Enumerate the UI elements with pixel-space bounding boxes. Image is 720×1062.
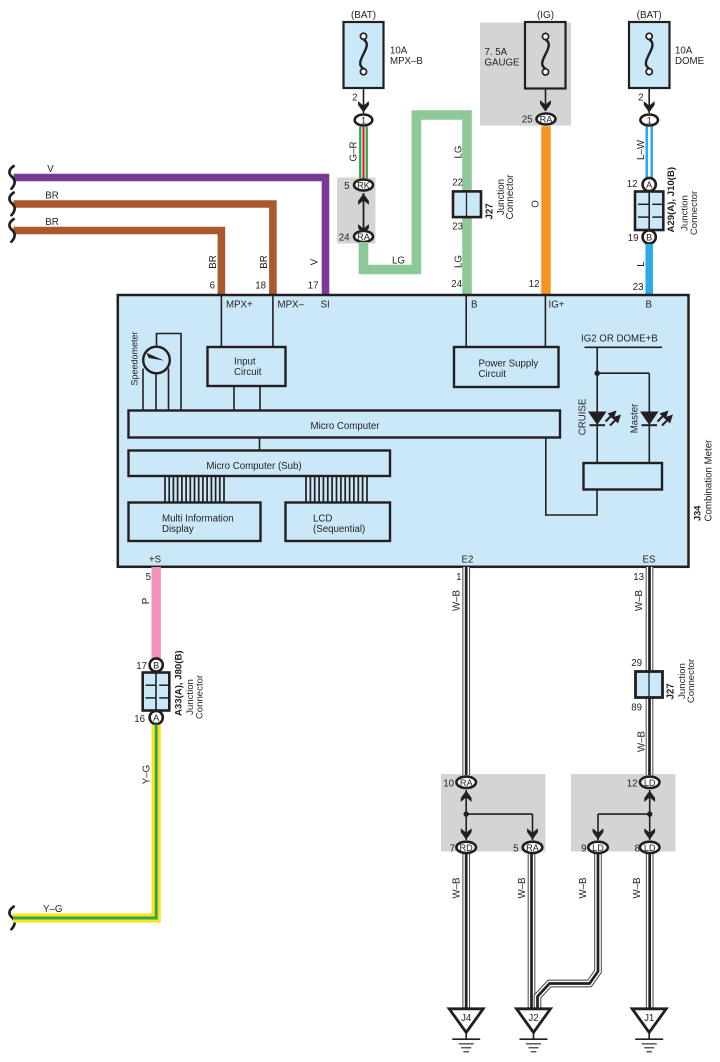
svg-text:Connector: Connector <box>505 174 516 219</box>
svg-text:J27: J27 <box>485 203 496 219</box>
svg-text:(BAT): (BAT) <box>637 10 662 21</box>
svg-text:RA: RA <box>526 843 540 853</box>
svg-text:Connector: Connector <box>195 674 206 719</box>
svg-text:W–B: W–B <box>452 878 463 899</box>
svg-text:13: 13 <box>633 572 644 583</box>
svg-text:23: 23 <box>452 222 463 233</box>
svg-text:A: A <box>153 713 160 723</box>
svg-text:1: 1 <box>456 572 461 583</box>
svg-text:10: 10 <box>443 779 454 790</box>
svg-text:9: 9 <box>581 844 586 855</box>
svg-text:Display: Display <box>162 524 194 535</box>
svg-text:17: 17 <box>308 281 319 292</box>
svg-text:J34: J34 <box>693 505 703 521</box>
svg-text:19: 19 <box>628 233 639 244</box>
svg-text:A: A <box>646 180 653 190</box>
svg-text:18: 18 <box>255 281 266 292</box>
svg-text:LD: LD <box>644 843 656 853</box>
svg-text:W–B: W–B <box>578 878 589 899</box>
svg-text:P: P <box>141 598 152 604</box>
svg-text:B: B <box>646 232 652 242</box>
svg-text:G–R: G–R <box>349 142 360 162</box>
svg-text:J2: J2 <box>528 1013 538 1024</box>
svg-text:J1: J1 <box>644 1013 654 1024</box>
svg-text:Speedometer: Speedometer <box>130 331 140 385</box>
svg-text:24: 24 <box>339 233 350 244</box>
svg-text:RK: RK <box>357 180 371 190</box>
svg-text:6: 6 <box>210 281 215 292</box>
svg-text:Multi Information: Multi Information <box>162 514 234 525</box>
svg-text:W–B: W–B <box>517 878 528 899</box>
svg-text:12: 12 <box>627 179 638 190</box>
svg-text:29: 29 <box>631 658 642 669</box>
svg-text:LCD: LCD <box>313 514 332 525</box>
svg-text:BR: BR <box>45 217 58 228</box>
svg-text:1: 1 <box>361 115 366 125</box>
svg-text:MPX–B: MPX–B <box>390 56 423 67</box>
svg-text:Connector: Connector <box>689 190 700 235</box>
svg-text:(Sequential): (Sequential) <box>313 524 365 535</box>
svg-text:MPX+: MPX+ <box>226 300 253 311</box>
svg-text:V: V <box>310 258 321 265</box>
svg-text:W–B: W–B <box>637 731 648 752</box>
svg-text:Combination Meter: Combination Meter <box>704 439 715 522</box>
svg-text:Y–G: Y–G <box>43 904 62 915</box>
svg-text:(IG): (IG) <box>537 10 554 21</box>
svg-text:22: 22 <box>452 178 463 189</box>
svg-text:10A: 10A <box>390 46 408 57</box>
svg-text:Micro Computer (Sub): Micro Computer (Sub) <box>206 461 301 472</box>
svg-text:LG: LG <box>454 146 465 159</box>
svg-text:2: 2 <box>638 93 643 104</box>
svg-text:J4: J4 <box>461 1013 472 1024</box>
svg-text:25: 25 <box>522 115 533 126</box>
svg-text:(BAT): (BAT) <box>351 10 376 21</box>
svg-text:A29(A), J10(B): A29(A), J10(B) <box>666 167 677 233</box>
svg-text:IG+: IG+ <box>549 300 565 311</box>
svg-text:E2: E2 <box>462 555 474 566</box>
svg-text:DOME: DOME <box>675 56 705 67</box>
svg-text:RD: RD <box>460 843 474 853</box>
svg-text:LD: LD <box>592 843 604 853</box>
svg-text:LG: LG <box>454 255 465 268</box>
svg-text:12: 12 <box>529 279 540 290</box>
svg-text:RA: RA <box>540 114 554 124</box>
svg-text:24: 24 <box>451 279 462 290</box>
svg-text:Input: Input <box>234 357 256 368</box>
svg-text:LD: LD <box>644 778 656 788</box>
svg-text:W–B: W–B <box>632 878 643 899</box>
svg-text:BR: BR <box>208 255 219 268</box>
svg-text:16: 16 <box>134 714 145 725</box>
svg-text:CRUISE: CRUISE <box>578 398 589 435</box>
svg-text:B: B <box>471 300 477 311</box>
svg-text:2: 2 <box>352 93 357 104</box>
svg-text:Y–G: Y–G <box>142 765 153 784</box>
svg-text:W–B: W–B <box>452 590 463 611</box>
svg-text:Master: Master <box>630 403 641 433</box>
svg-text:RA: RA <box>357 232 371 242</box>
svg-text:12: 12 <box>627 779 638 790</box>
svg-text:L: L <box>636 261 647 267</box>
svg-text:Micro Computer: Micro Computer <box>311 421 381 432</box>
svg-text:7: 7 <box>450 844 455 855</box>
svg-text:L–W: L–W <box>636 139 647 160</box>
svg-text:ES: ES <box>643 555 656 566</box>
svg-text:+S: +S <box>149 555 162 566</box>
svg-text:A33(A), J80(B): A33(A), J80(B) <box>174 650 185 716</box>
svg-text:89: 89 <box>631 703 642 714</box>
svg-text:LG: LG <box>392 256 405 267</box>
svg-text:MPX–: MPX– <box>278 300 305 311</box>
svg-text:5: 5 <box>344 181 349 192</box>
svg-text:SI: SI <box>321 300 330 311</box>
svg-text:Circuit: Circuit <box>234 367 262 378</box>
svg-text:5: 5 <box>146 572 151 583</box>
svg-text:O: O <box>531 200 542 208</box>
svg-text:V: V <box>47 164 54 175</box>
svg-text:10A: 10A <box>675 46 693 57</box>
svg-text:Power Supply: Power Supply <box>479 359 539 370</box>
svg-text:23: 23 <box>633 282 644 293</box>
svg-text:B: B <box>646 300 652 311</box>
svg-text:GAUGE: GAUGE <box>485 58 521 69</box>
svg-text:W–B: W–B <box>634 590 645 611</box>
svg-text:IG2 OR DOME+B: IG2 OR DOME+B <box>581 334 658 345</box>
svg-text:1: 1 <box>647 115 652 125</box>
svg-text:B: B <box>153 660 159 670</box>
svg-text:7. 5A: 7. 5A <box>485 47 508 58</box>
svg-text:17: 17 <box>136 661 147 672</box>
svg-text:J27: J27 <box>666 683 677 699</box>
svg-text:5: 5 <box>513 844 518 855</box>
svg-text:BR: BR <box>259 255 270 268</box>
svg-text:RA: RA <box>460 778 474 788</box>
svg-text:Connector: Connector <box>686 658 697 703</box>
svg-text:Circuit: Circuit <box>479 369 507 380</box>
svg-text:BR: BR <box>45 191 58 202</box>
svg-text:8: 8 <box>635 844 640 855</box>
